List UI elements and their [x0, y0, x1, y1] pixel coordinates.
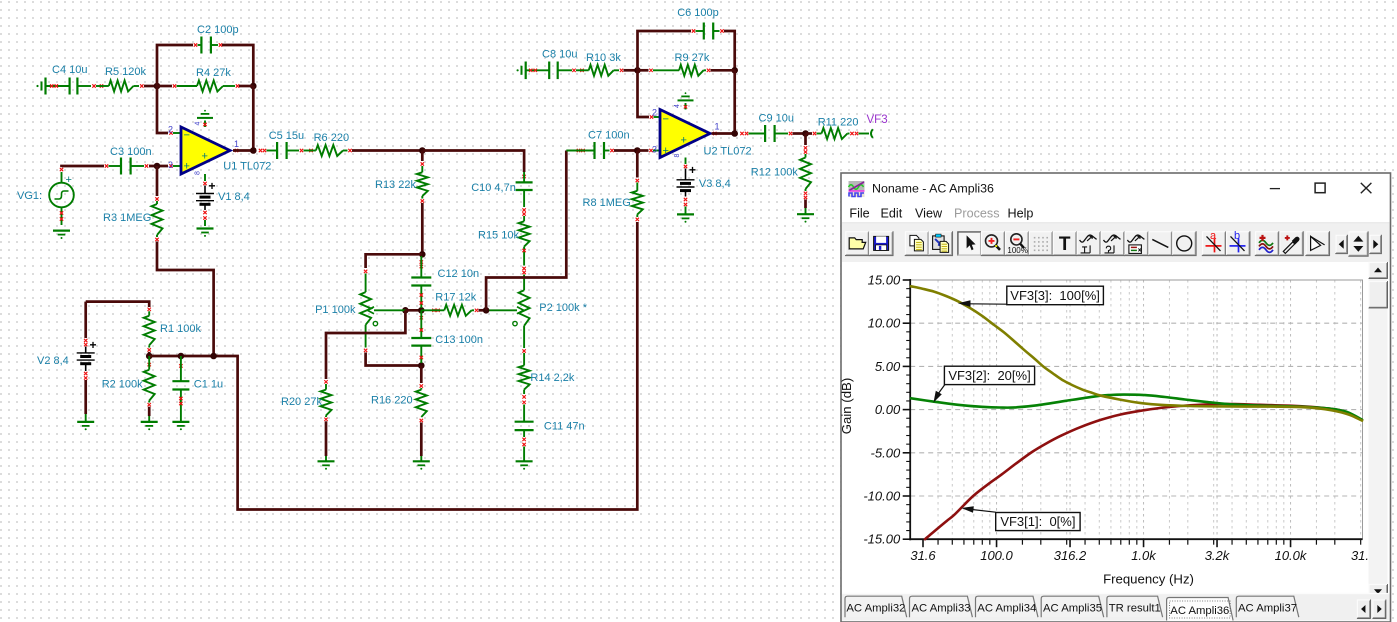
- svg-text:C2 100p: C2 100p: [197, 24, 239, 36]
- svg-text:R10 3k: R10 3k: [586, 52, 621, 64]
- svg-text:VF3[1]: 0[%]: VF3[1]: 0[%]: [1000, 514, 1075, 529]
- svg-text:R9 27k: R9 27k: [675, 52, 710, 64]
- svg-text:R16 220: R16 220: [371, 395, 413, 407]
- svg-text:-10.00: -10.00: [863, 489, 901, 504]
- svg-text:-15.00: -15.00: [863, 532, 901, 547]
- svg-text:TR result1: TR result1: [1109, 603, 1161, 615]
- svg-text:5.00: 5.00: [875, 359, 901, 374]
- svg-text:31.: 31.: [1351, 548, 1369, 563]
- svg-text:C5 15u: C5 15u: [269, 130, 304, 142]
- svg-text:+: +: [202, 151, 208, 163]
- svg-text:C3 100n: C3 100n: [110, 146, 152, 158]
- svg-text:VF3[2]: 20[%]: VF3[2]: 20[%]: [948, 368, 1030, 383]
- svg-text:T: T: [1059, 234, 1071, 255]
- svg-text:U2 TL072: U2 TL072: [704, 146, 752, 158]
- svg-text:R15 10k: R15 10k: [478, 230, 519, 242]
- svg-text:C13 100n: C13 100n: [435, 334, 483, 346]
- svg-text:10.0k: 10.0k: [1275, 548, 1308, 563]
- svg-text:+: +: [689, 163, 696, 177]
- svg-text:Process: Process: [954, 206, 1000, 220]
- svg-text:1: 1: [234, 139, 239, 149]
- svg-text:−: −: [184, 130, 190, 142]
- svg-text:V3 8,4: V3 8,4: [699, 178, 731, 190]
- svg-text:C10 4,7n: C10 4,7n: [471, 182, 516, 194]
- svg-text:R3 1MEG: R3 1MEG: [103, 212, 151, 224]
- svg-text:V2 8,4: V2 8,4: [37, 355, 69, 367]
- svg-text:R12 100k: R12 100k: [751, 167, 799, 179]
- svg-text:+: +: [681, 135, 687, 147]
- svg-text:2: 2: [652, 108, 657, 118]
- svg-text:R1 100k: R1 100k: [160, 323, 201, 335]
- svg-text:R20 27k: R20 27k: [281, 396, 322, 408]
- svg-text:+: +: [90, 338, 97, 352]
- svg-text:R6 220: R6 220: [314, 132, 349, 144]
- svg-text:C4 10u: C4 10u: [52, 64, 87, 76]
- svg-text:3: 3: [652, 145, 657, 155]
- svg-text:R8 1MEG: R8 1MEG: [583, 197, 631, 209]
- svg-text:4: 4: [674, 104, 681, 108]
- svg-text:1.0k: 1.0k: [1131, 548, 1157, 563]
- svg-text:R13 22k: R13 22k: [375, 179, 416, 191]
- svg-text:VF3[3]: 100[%]: VF3[3]: 100[%]: [1010, 288, 1100, 303]
- svg-text:8: 8: [195, 171, 202, 175]
- svg-text:Frequency (Hz): Frequency (Hz): [1103, 572, 1194, 587]
- svg-text:R2 100k: R2 100k: [102, 379, 143, 391]
- svg-text:100.0: 100.0: [980, 548, 1013, 563]
- svg-text:R17 12k: R17 12k: [435, 292, 476, 304]
- svg-text:Edit: Edit: [881, 206, 903, 220]
- svg-text:Help: Help: [1008, 206, 1034, 220]
- svg-text:C6 100p: C6 100p: [677, 7, 719, 19]
- svg-text:VG1:: VG1:: [17, 190, 42, 202]
- svg-text:4: 4: [195, 122, 202, 126]
- svg-text:AC Ampli36: AC Ampli36: [1170, 605, 1229, 617]
- svg-text:a: a: [1210, 230, 1217, 242]
- svg-text:8: 8: [674, 154, 681, 158]
- svg-text:C1 1u: C1 1u: [194, 379, 223, 391]
- svg-text:C8 10u: C8 10u: [542, 49, 577, 61]
- svg-text:R14 2,2k: R14 2,2k: [530, 372, 575, 384]
- svg-text:3.2k: 3.2k: [1205, 548, 1231, 563]
- svg-text:C11 47n: C11 47n: [544, 421, 585, 433]
- svg-text:316.2: 316.2: [1054, 548, 1087, 563]
- svg-text:C9 10u: C9 10u: [759, 113, 794, 125]
- svg-text:VF3: VF3: [867, 114, 888, 126]
- svg-text:+: +: [184, 161, 190, 173]
- svg-text:AC Ampli34: AC Ampli34: [977, 603, 1036, 615]
- svg-text:2: 2: [168, 125, 173, 135]
- svg-text:100%: 100%: [1007, 246, 1027, 255]
- svg-text:10.00: 10.00: [868, 316, 901, 331]
- svg-text:AC Ampli37: AC Ampli37: [1238, 603, 1297, 615]
- svg-text:Noname - AC Ampli36: Noname - AC Ampli36: [872, 181, 994, 195]
- svg-text:V1 8,4: V1 8,4: [218, 191, 250, 203]
- svg-text:P2 100k *: P2 100k *: [539, 302, 587, 314]
- svg-text:R4 27k: R4 27k: [196, 67, 231, 79]
- svg-text:R11 220: R11 220: [818, 117, 859, 129]
- svg-text:b: b: [1234, 230, 1240, 242]
- svg-text:View: View: [915, 206, 943, 220]
- svg-text:C7 100n: C7 100n: [588, 130, 630, 142]
- svg-text:AC Ampli35: AC Ampli35: [1043, 603, 1102, 615]
- svg-text:3: 3: [168, 160, 173, 170]
- svg-text:AC Ampli32: AC Ampli32: [846, 603, 905, 615]
- svg-text:31.6: 31.6: [910, 548, 936, 563]
- svg-text:C12 10n: C12 10n: [438, 268, 480, 280]
- svg-text:-5.00: -5.00: [871, 445, 901, 460]
- svg-text:+: +: [663, 145, 669, 157]
- svg-text:15.00: 15.00: [868, 273, 901, 288]
- svg-text:R5 120k: R5 120k: [105, 66, 146, 78]
- svg-text:Gain (dB): Gain (dB): [839, 378, 854, 434]
- svg-text:U1 TL072: U1 TL072: [223, 161, 271, 173]
- svg-text:+: +: [66, 174, 72, 186]
- svg-text:P1 100k: P1 100k: [315, 304, 356, 316]
- svg-text:+: +: [209, 179, 216, 193]
- svg-text:1: 1: [715, 122, 720, 132]
- svg-text:AC Ampli33: AC Ampli33: [911, 603, 970, 615]
- svg-text:File: File: [849, 206, 869, 220]
- svg-text:0.00: 0.00: [875, 402, 901, 417]
- svg-text:−: −: [663, 114, 669, 126]
